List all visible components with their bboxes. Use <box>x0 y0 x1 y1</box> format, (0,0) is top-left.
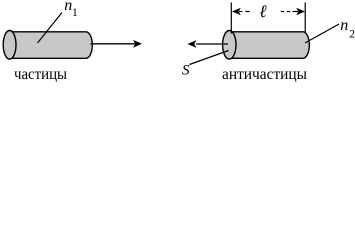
left cylinder left face ellipse <box>3 31 16 60</box>
label S pointer line <box>190 51 229 65</box>
dimension dash right 2 <box>287 11 290 13</box>
dimension extension line right <box>304 3 306 33</box>
arrow from right cylinder pointing left (beam of antiparticles) <box>196 43 228 45</box>
svg-text:античастицы: античастицы <box>222 64 307 83</box>
dimension dash right 1 <box>281 11 285 13</box>
right cylinder body <box>229 32 309 59</box>
dimension left arrowhead <box>232 8 241 16</box>
arrow from left cylinder (beam of particles) <box>91 43 136 45</box>
dimension right arrowhead <box>293 11 299 13</box>
dimension extension line left <box>230 3 232 34</box>
right cylinder left face ellipse <box>223 31 236 60</box>
svg-text:ℓ: ℓ <box>259 1 267 21</box>
svg-text:1: 1 <box>72 7 78 19</box>
svg-text:n: n <box>340 17 348 34</box>
left cylinder body <box>10 32 93 59</box>
svg-text:2: 2 <box>349 28 355 40</box>
svg-text:S: S <box>182 62 190 78</box>
label n1 pointer line <box>38 13 63 44</box>
dimension dash left <box>245 11 250 13</box>
svg-text:частицы: частицы <box>14 64 67 83</box>
label n2 pointer line <box>305 24 339 43</box>
